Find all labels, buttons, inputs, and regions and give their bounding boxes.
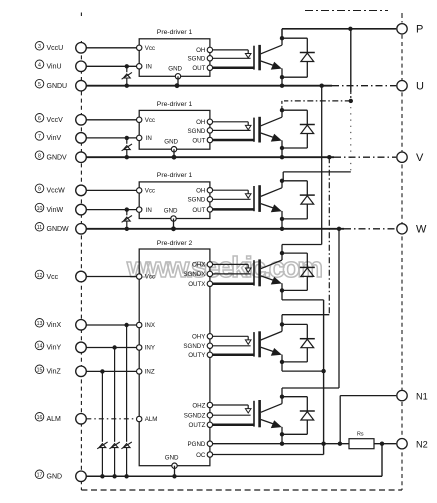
wire OHV with arrow	[213, 122, 251, 130]
svg-text:VccW: VccW	[47, 188, 66, 195]
svg-text:GNDW: GNDW	[47, 226, 70, 233]
wire N2 return to GND line	[381, 444, 383, 477]
junction QV emitter	[280, 146, 284, 150]
pin SGND of U1 (U phase)	[188, 56, 213, 63]
pin OHX of U4	[192, 262, 213, 269]
wire PGND to shunt	[213, 443, 349, 445]
wire N1 lead	[340, 395, 396, 397]
svg-text:PGND: PGND	[188, 441, 206, 448]
wire SGNDU stub	[213, 57, 251, 59]
wire OUTW gate drive	[213, 208, 254, 211]
IGBT QW	[254, 181, 282, 219]
pin OUTX of U4	[188, 281, 212, 288]
wire ALM terminal to driver (dash-dot)	[86, 418, 136, 420]
wire W emitter to W line	[281, 219, 283, 229]
junction U emitter on U line	[280, 84, 284, 88]
terminal VccU (pin 3)	[76, 43, 87, 54]
svg-text:OH: OH	[196, 47, 205, 54]
wire OUTY gate drive	[213, 354, 254, 357]
svg-text:GND: GND	[47, 474, 63, 481]
zener DZ-V VinV to GNDV	[122, 138, 132, 157]
junction VinX pulldown	[124, 323, 128, 327]
junction QY collector	[280, 322, 284, 326]
wire V emitter to V line	[281, 148, 283, 157]
wire OUTU gate drive	[213, 67, 254, 70]
terminal N2	[397, 439, 407, 449]
label pin 6 VccV	[35, 114, 63, 125]
diode DV freewheel	[282, 110, 315, 148]
label terminal N1	[416, 391, 428, 401]
svg-text:SGNDY: SGNDY	[183, 343, 205, 350]
label pin 8 GNDV	[35, 151, 67, 162]
wire SGNDY stub	[213, 345, 251, 347]
label terminal P	[416, 24, 423, 36]
svg-text:SGNDX: SGNDX	[183, 271, 205, 278]
svg-text:SGND: SGND	[188, 128, 206, 135]
pin GND of U2 (V phase)	[164, 138, 178, 152]
pin SGNDY of U4	[183, 343, 212, 350]
shunt resistor Rs	[349, 439, 374, 449]
wire OHY with arrow	[213, 336, 251, 344]
terminal V	[397, 152, 407, 162]
wire GNDU / U-phase emitter line	[86, 85, 396, 87]
junction QY emitter	[280, 360, 284, 364]
wire U collector to P rail	[282, 29, 396, 38]
terminal GNDW (pin 11)	[76, 224, 87, 235]
wire VinY terminal to driver input	[86, 347, 136, 349]
svg-text:OC: OC	[196, 452, 206, 459]
svg-text:VccV: VccV	[47, 117, 64, 124]
svg-text:OUT: OUT	[192, 207, 205, 214]
junction U1 GND on U line	[175, 83, 180, 88]
wire SGNDV stub	[213, 129, 251, 131]
pin Vcc of U2 (V phase)	[137, 117, 156, 124]
label pin 12 Vcc	[35, 270, 58, 281]
junction V emitter on V line	[280, 155, 284, 159]
pin OH of U1 (U phase)	[196, 47, 212, 54]
svg-text:12: 12	[37, 273, 43, 279]
svg-text:Vcc: Vcc	[145, 188, 155, 195]
terminal VinV (pin 7)	[76, 133, 87, 144]
wire Vcc terminal to driver input	[86, 276, 136, 278]
label pin 9 VccW	[35, 184, 65, 195]
wire OC sense	[213, 454, 324, 456]
junction U2 GND on V line	[172, 155, 177, 160]
zener DZ-X VinX to GND	[121, 325, 131, 476]
pin SGNDX of U4	[183, 271, 212, 278]
wire U emitter to U line	[281, 77, 283, 86]
pin OUT of U2 (V phase)	[192, 137, 212, 144]
pin Vcc of U4	[137, 274, 156, 281]
wire VinV terminal to driver input	[86, 137, 136, 139]
svg-text:11: 11	[37, 225, 42, 231]
wire GNDV / V-phase emitter line	[86, 156, 396, 158]
terminal GND (pin 17)	[76, 471, 87, 482]
svg-text:V: V	[416, 152, 424, 164]
label pin 11 GNDW	[35, 223, 69, 234]
module boundary top edge (dash-dot)	[81, 11, 388, 17]
svg-text:OUT: OUT	[192, 65, 205, 72]
svg-text:Pre-driver 2: Pre-driver 2	[157, 240, 193, 247]
zener DZ-Y VinY to GND	[109, 348, 119, 477]
label pin 3 VccU	[35, 42, 63, 53]
pin OHY of U4	[192, 334, 213, 341]
junction U3 GND on W line	[171, 226, 176, 231]
module boundary right edge (dashed)	[401, 13, 403, 490]
label pin 17 GND	[35, 470, 62, 481]
terminal VinU (pin 4)	[76, 61, 87, 72]
wire driver U3 GND drop	[173, 219, 175, 229]
svg-text:OHZ: OHZ	[192, 402, 205, 409]
pre-driver U1 (U phase) box	[139, 39, 210, 77]
svg-text:SGND: SGND	[188, 197, 206, 204]
svg-text:INY: INY	[145, 345, 155, 352]
svg-text:16: 16	[37, 415, 43, 421]
svg-text:9: 9	[38, 187, 41, 193]
svg-text:VccU: VccU	[47, 45, 64, 52]
junction QX emitter	[280, 288, 284, 292]
terminal U	[397, 81, 407, 91]
IGBT QV	[254, 110, 282, 148]
svg-text:10: 10	[37, 206, 43, 212]
pin SGND of U3 (W phase)	[188, 197, 213, 204]
pin INX of U4	[137, 322, 156, 329]
label terminal W	[416, 224, 427, 236]
svg-text:W: W	[416, 224, 427, 236]
junction P rail / P bus	[348, 27, 352, 31]
junction N2 return	[380, 442, 384, 446]
pin OHZ of U4	[192, 402, 212, 409]
svg-text:VinU: VinU	[47, 64, 62, 71]
svg-text:GND: GND	[168, 66, 182, 73]
wire P bus to W collector	[283, 172, 351, 181]
label pin 13 VinX	[35, 319, 61, 330]
terminal VinY (pin 14)	[76, 342, 87, 353]
label pre-driver U3 (W phase)	[157, 172, 193, 179]
svg-text:N2: N2	[416, 440, 428, 450]
svg-text:SGND: SGND	[188, 56, 206, 63]
junction DZ-V to GNDV line	[125, 155, 129, 159]
pin IN of U2 (V phase)	[137, 135, 152, 142]
wire QY emitter to N bus	[282, 362, 324, 371]
label Rs	[357, 432, 364, 438]
wire OUTV gate drive	[213, 139, 254, 142]
svg-text:5: 5	[38, 82, 41, 88]
pre-driver U4 (low side) box	[139, 249, 210, 466]
wire W line drop to QZ collector	[282, 229, 339, 397]
wire OHW with arrow	[213, 190, 251, 198]
svg-text:15: 15	[37, 368, 43, 374]
pin GND of U4	[165, 455, 179, 469]
wire GND bottom line	[86, 475, 382, 477]
svg-text:OHY: OHY	[192, 334, 205, 341]
wire P bus to V collector	[282, 101, 351, 110]
junction QW emitter	[280, 217, 284, 221]
junction VinZ pulldown	[100, 369, 104, 373]
wire VinX terminal to driver input	[86, 324, 136, 326]
module boundary left edge (dashed)	[80, 41, 82, 490]
terminal VccW (pin 9)	[76, 185, 87, 196]
svg-text:VinY: VinY	[47, 345, 62, 352]
pin OUTY of U4	[188, 352, 212, 359]
svg-text:IN: IN	[146, 64, 152, 71]
junction QZ collector	[280, 395, 284, 399]
wire shunt to N2	[374, 443, 396, 445]
junction DZ-Y to GND line	[112, 474, 116, 478]
wire P bus vertical	[350, 29, 352, 172]
pin OUT of U3 (W phase)	[192, 207, 212, 214]
pin ALM of U4	[137, 416, 158, 423]
svg-text:IN: IN	[146, 207, 152, 214]
svg-text:U: U	[416, 81, 424, 93]
svg-text:Pre-driver 1: Pre-driver 1	[157, 29, 193, 36]
IGBT QZ	[254, 397, 282, 435]
pin INY of U4	[137, 345, 156, 352]
module boundary bottom edge (dashed)	[81, 489, 402, 491]
svg-text:Vcc: Vcc	[145, 117, 155, 124]
pre-driver U3 (W phase) box	[139, 182, 210, 219]
svg-text:4: 4	[38, 63, 41, 69]
wire SGNDX stub	[213, 273, 251, 275]
wire OHU with arrow	[213, 50, 251, 58]
svg-text:Vcc: Vcc	[145, 274, 155, 281]
junction N1 tap	[338, 442, 342, 446]
svg-text:GND: GND	[164, 138, 178, 145]
svg-text:GNDU: GNDU	[47, 83, 68, 90]
watermark www.seekic.com	[126, 252, 323, 284]
pin Vcc of U1 (U phase)	[137, 45, 156, 52]
junction P bus V branch	[349, 99, 353, 103]
terminal W	[397, 224, 407, 234]
terminal GNDV (pin 8)	[76, 152, 87, 163]
junction QU emitter	[280, 75, 284, 79]
wire VinW terminal to driver input	[86, 209, 136, 211]
label pre-driver U1 (U phase)	[157, 29, 193, 36]
zener DZ-Z VinZ to GND	[97, 371, 107, 476]
terminal VinX (pin 13)	[76, 320, 87, 331]
junction QV collector	[280, 108, 284, 112]
junction QU collector	[280, 36, 284, 40]
junction DZ-X to GND line	[124, 474, 128, 478]
pin INZ of U4	[137, 369, 155, 376]
junction VinU pulldown	[125, 64, 129, 68]
diode DZ freewheel	[282, 397, 315, 435]
terminal VinW (pin 10)	[76, 204, 87, 215]
svg-text:INX: INX	[145, 322, 155, 329]
svg-text:13: 13	[37, 321, 43, 327]
wire U line drop to QX collector	[282, 86, 322, 253]
label pin 14 VinY	[35, 341, 61, 352]
svg-text:OH: OH	[196, 187, 205, 194]
wire N bus vertical	[323, 300, 325, 455]
terminal P	[397, 24, 407, 34]
wire driver U4 GND drop	[174, 466, 176, 477]
junction QX collector	[280, 251, 284, 255]
label terminal V	[416, 152, 424, 164]
wire GNDW / W-phase emitter line	[86, 228, 396, 230]
diode DY freewheel	[282, 324, 315, 362]
junction QZ emitter on N2 bus	[280, 442, 284, 446]
junction W line to Z drop	[337, 227, 341, 231]
wire V line drop to QY collector	[282, 157, 329, 324]
junction DZ-Z to GND line	[100, 474, 104, 478]
svg-text:OHX: OHX	[192, 262, 205, 269]
wire SGNDZ stub	[213, 414, 251, 416]
svg-text:14: 14	[37, 344, 43, 350]
wire driver U1 GND drop	[177, 76, 179, 85]
junction W emitter on W line	[280, 227, 284, 231]
junction N bus on N2 bus	[321, 442, 325, 446]
diode DU freewheel	[282, 38, 315, 77]
svg-text:N1: N1	[416, 391, 428, 401]
svg-text:OUT: OUT	[192, 137, 205, 144]
pin OC of U4	[196, 452, 212, 459]
svg-text:P: P	[416, 24, 423, 36]
svg-text:Rs: Rs	[357, 432, 364, 438]
IGBT QY	[254, 324, 282, 362]
svg-text:OUTY: OUTY	[188, 352, 205, 359]
svg-text:3: 3	[38, 44, 41, 50]
svg-text:GND: GND	[165, 455, 179, 462]
wire QX emitter to N bus	[282, 290, 324, 300]
wire driver U2 GND drop	[173, 149, 175, 157]
label pin 4 VinU	[35, 60, 61, 71]
wire OHZ with arrow	[213, 405, 251, 413]
terminal GNDU (pin 5)	[76, 80, 87, 91]
terminal ALM (pin 16)	[76, 414, 87, 425]
svg-text:7: 7	[38, 134, 41, 140]
terminal Vcc (pin 12)	[76, 271, 87, 282]
svg-text:IN: IN	[146, 135, 152, 142]
pin PGND of U4	[188, 441, 213, 448]
junction QW collector	[280, 179, 284, 183]
zener DZ-U VinU to GNDU	[122, 66, 132, 85]
wire OUTZ gate drive	[213, 424, 254, 427]
wire OHX with arrow	[213, 264, 251, 272]
IGBT QX	[254, 253, 282, 290]
svg-text:Vcc: Vcc	[47, 274, 59, 281]
wire SGNDW stub	[213, 198, 251, 200]
svg-text:Vcc: Vcc	[145, 45, 155, 52]
wire VinU terminal to driver input	[86, 65, 136, 67]
junction QZ emitter	[280, 432, 284, 436]
wire VccW terminal to driver input	[86, 189, 136, 191]
svg-text:GND: GND	[164, 208, 178, 215]
junction VinV pulldown	[125, 136, 129, 140]
label pin 7 VinV	[35, 132, 61, 143]
wire VccV terminal to driver input	[86, 119, 136, 121]
pin SGNDZ of U4	[184, 413, 213, 420]
junction DZ-W to GNDW line	[125, 227, 129, 231]
junction VinY pulldown	[112, 345, 116, 349]
svg-text:OUTX: OUTX	[188, 281, 205, 288]
svg-text:VinX: VinX	[47, 322, 62, 329]
diode DX freewheel	[282, 253, 315, 290]
label terminal U	[416, 81, 424, 93]
junction U4 GND on GND line	[172, 474, 176, 478]
svg-text:ALM: ALM	[145, 416, 158, 423]
svg-text:OUTZ: OUTZ	[189, 422, 206, 429]
terminal VinZ (pin 15)	[76, 366, 87, 377]
wire N1 tap drop	[339, 396, 341, 444]
svg-text:6: 6	[38, 116, 41, 122]
pin GND of U1 (U phase)	[168, 66, 182, 80]
wire QZ emitter to N2 bus	[281, 434, 283, 443]
label pin 16 ALM	[35, 413, 61, 424]
pin IN of U3 (W phase)	[137, 207, 152, 214]
svg-text:VinW: VinW	[47, 207, 64, 214]
junction VinW pulldown	[125, 207, 129, 211]
pin OUTZ of U4	[189, 422, 213, 429]
label terminal N2	[416, 440, 428, 450]
terminal VccV (pin 6)	[76, 115, 87, 126]
pin IN of U1 (U phase)	[137, 64, 152, 71]
label pre-driver U4	[157, 240, 193, 247]
svg-text:Pre-driver 1: Pre-driver 1	[157, 172, 193, 179]
svg-text:INZ: INZ	[145, 369, 155, 376]
svg-text:VinZ: VinZ	[47, 369, 62, 376]
pin OH of U3 (W phase)	[196, 187, 212, 194]
svg-text:8: 8	[38, 154, 41, 160]
pin OUT of U1 (U phase)	[192, 65, 212, 72]
svg-text:OH: OH	[196, 119, 205, 126]
label pin 5 GNDU	[35, 79, 67, 90]
svg-text:ALM: ALM	[47, 416, 62, 423]
junction QY emitter on N bus	[321, 369, 325, 373]
pin SGND of U2 (V phase)	[188, 128, 213, 135]
junction V line to Y drop	[327, 155, 331, 159]
diode DW freewheel	[282, 181, 315, 219]
terminal N1	[397, 390, 407, 400]
junction DZ-U to GNDU line	[125, 84, 129, 88]
svg-text:www.seekic.com: www.seekic.com	[126, 252, 323, 284]
svg-text:GNDV: GNDV	[47, 155, 68, 162]
svg-text:17: 17	[37, 473, 43, 479]
label pin 15 VinZ	[35, 365, 61, 376]
svg-text:VinV: VinV	[47, 135, 62, 142]
wire OUTX gate drive	[213, 283, 254, 286]
IGBT QU	[254, 38, 282, 77]
pin OH of U2 (V phase)	[196, 119, 212, 126]
svg-text:Pre-driver 1: Pre-driver 1	[157, 101, 193, 108]
label pre-driver U2 (V phase)	[157, 101, 193, 108]
zener DZ-W VinW to GNDW	[122, 210, 132, 229]
pin GND of U3 (W phase)	[164, 208, 178, 222]
wire VinZ terminal to driver input	[86, 370, 136, 372]
label pin 10 VinW	[35, 203, 63, 214]
pin Vcc of U3 (W phase)	[137, 188, 156, 195]
wire VccU terminal to driver input	[86, 47, 136, 49]
junction U line to X drop	[320, 84, 324, 88]
pre-driver U2 (V phase) box	[139, 110, 210, 149]
svg-text:SGNDZ: SGNDZ	[184, 413, 206, 420]
